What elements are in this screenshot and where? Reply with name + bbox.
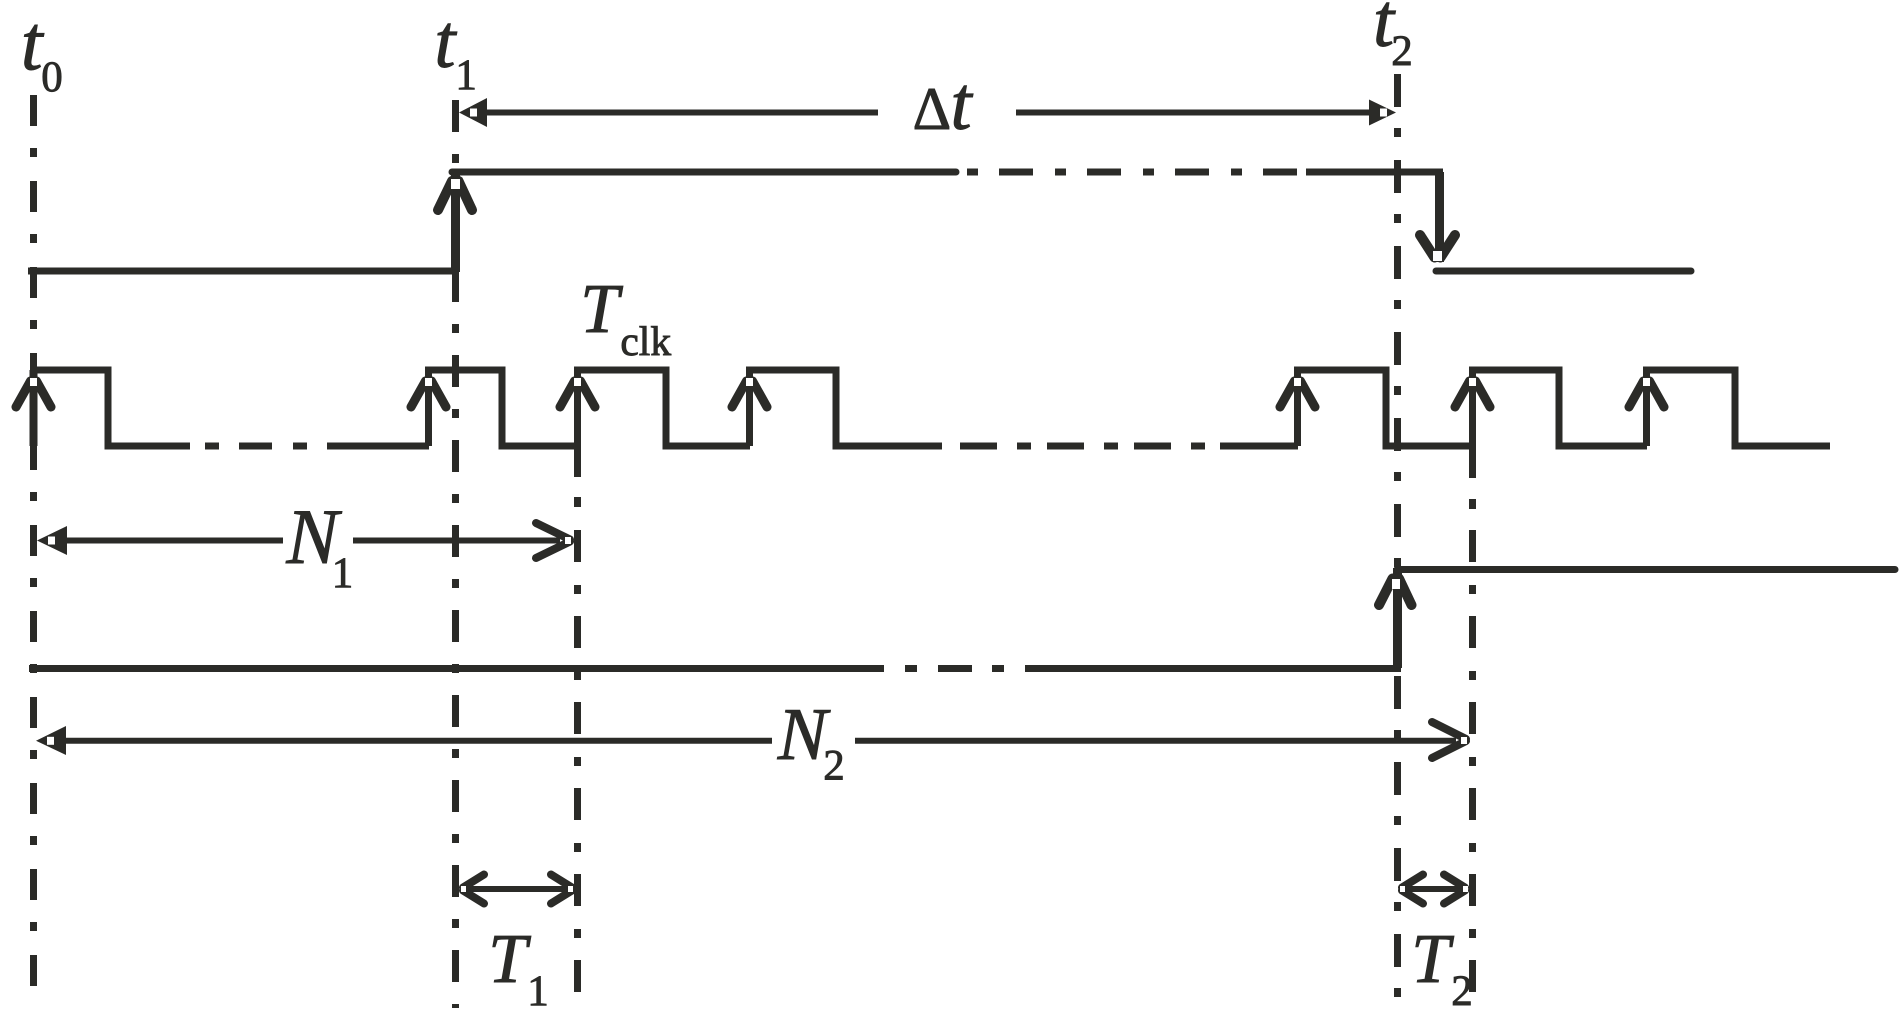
wire clock low dash-dot 1 [205, 443, 360, 450]
svg-text:2: 2 [823, 743, 845, 790]
wire start-signal high segment solid right [1306, 169, 1443, 176]
arrow N1 dimension line [64, 538, 560, 544]
arrow clock edge 1 [16, 381, 51, 407]
arrow T2 double-headed dimension line [1405, 886, 1462, 892]
wire stop-signal rising edge at t2 [1393, 568, 1402, 668]
arrow delta-t left arrowhead at t1 [459, 98, 487, 127]
clock pulse 3 with edge extension [574, 370, 750, 477]
clock pulse 2 [425, 370, 578, 446]
wire start-signal low segment [28, 268, 456, 275]
T1 right boundary vertical dash-dot line [574, 530, 581, 1008]
arrow T1 arrowheads [463, 875, 572, 904]
wire start-signal high segment dash-dot middle [967, 169, 1300, 176]
arrow clock edge 6 [1455, 381, 1490, 407]
arrow T2 arrowheads [1402, 875, 1465, 904]
arrow clock edge 3 [560, 381, 595, 407]
arrow T1 double-headed dimension line [466, 886, 569, 892]
clock pulse 6 with edge extension [1469, 370, 1647, 478]
wire start-signal rising edge at t1 [451, 172, 460, 272]
svg-text:2: 2 [1451, 968, 1473, 1008]
svg-text:clk: clk [620, 318, 671, 364]
wire clock low solid to pulse 2 [353, 443, 429, 450]
arrow down on start-signal falling edge [1420, 235, 1455, 258]
arrow clock edge 7 [1629, 381, 1664, 407]
arrow up on stop-signal rising edge [1379, 579, 1412, 606]
wire stop-signal high segment [1397, 566, 1895, 573]
arrow delta-t dimension line [487, 110, 1372, 116]
arrow clock edge 4 [732, 381, 767, 407]
svg-text:0: 0 [41, 54, 63, 101]
svg-text:t: t [434, 0, 457, 84]
svg-text:T: T [488, 921, 531, 998]
svg-text:1: 1 [455, 52, 477, 99]
wire clock low solid to pulse 5 [1220, 443, 1298, 450]
arrow clock edge 5 [1280, 381, 1315, 407]
arrow N2 left arrowhead at t0 [36, 726, 66, 755]
arrow N1 right arrowhead [536, 523, 570, 558]
arrow N1 left arrowhead at t0 [37, 526, 67, 555]
arrow N2 dimension line [64, 738, 1456, 744]
svg-text:t: t [951, 62, 974, 146]
svg-text:2: 2 [1391, 28, 1413, 75]
svg-text:1: 1 [527, 968, 549, 1008]
node t1 vertical dash-dot line [452, 100, 459, 1008]
svg-text:T: T [1411, 921, 1454, 998]
clock pulse 4 [746, 370, 942, 446]
wire start-signal falling edge at t2 [1435, 172, 1444, 262]
T2 right boundary vertical dash-dot line [1469, 530, 1476, 1008]
arrow delta-t right arrowhead at t2 [1369, 100, 1396, 126]
clock pulse 7 [1643, 370, 1830, 446]
clock pulse 5 [1294, 370, 1473, 446]
node t2 vertical dash-dot line [1394, 74, 1401, 1008]
wire start-signal low segment right [1436, 268, 1691, 275]
arrow N2 right arrowhead [1432, 722, 1466, 758]
svg-text:Δ: Δ [913, 76, 952, 142]
node t0 vertical dash-dot line [30, 95, 37, 1008]
arrow clock edge 2 [411, 381, 446, 407]
svg-text:1: 1 [332, 550, 354, 597]
svg-text:T: T [580, 271, 623, 348]
clock rising edge 1 [30, 370, 38, 446]
wire stop-signal low solid right [1056, 665, 1401, 672]
wire start-signal high segment solid left [452, 169, 956, 176]
wire stop-signal low dash-dot [905, 665, 1060, 672]
wire clock low dash-dot 2 [960, 443, 1205, 450]
wire stop-signal low segment solid left [29, 665, 884, 672]
clock pulse 1 [30, 370, 190, 446]
arrow up on start-signal rising edge [438, 181, 472, 210]
